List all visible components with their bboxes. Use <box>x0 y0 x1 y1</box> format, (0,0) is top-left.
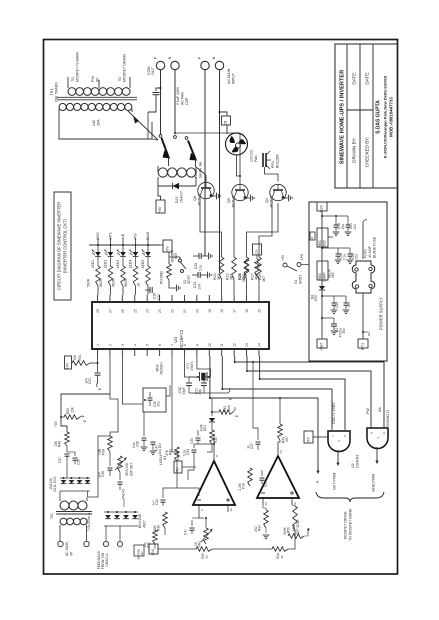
resistor R41 47K <box>175 447 180 461</box>
svg-text:OUT: OUT <box>151 66 155 75</box>
wire OSC pin9 <box>197 356 211 377</box>
svg-text:5: 5 <box>370 432 374 434</box>
+5V box gate supply <box>304 431 313 443</box>
wire TR1 to relay diagonal <box>128 111 158 140</box>
wire R27 to PIC pin <box>258 279 260 295</box>
svg-text:OUT PWM: OUT PWM <box>333 473 337 490</box>
wire relay NC to TR1 loop <box>152 139 158 140</box>
svg-text:3: 3 <box>337 440 341 442</box>
wire R20 to PIC pin <box>221 279 223 295</box>
svg-text:C47: C47 <box>250 443 254 449</box>
svg-text:LPS: LPS <box>300 253 304 260</box>
resistor R49 10K <box>65 432 70 446</box>
svg-text:2.2M: 2.2M <box>238 483 242 490</box>
diode D6 <box>132 515 138 519</box>
svg-text:MOB:-09910447733: MOB:-09910447733 <box>389 97 394 137</box>
svg-text:2.5uF 440V: 2.5uF 440V <box>176 86 180 105</box>
capacitor C42 <box>191 520 193 526</box>
svg-text:F28: F28 <box>242 483 246 489</box>
wire Q6 collector down <box>200 196 222 257</box>
svg-text:7: 7 <box>171 344 175 346</box>
wire C8 to AC neutral <box>220 112 228 116</box>
svg-text:D15: D15 <box>175 197 179 203</box>
wire AC MAIN phase down <box>204 70 206 257</box>
svg-text:PW: PW <box>134 232 138 238</box>
terminal AC MAIN IP 2 <box>84 541 89 546</box>
svg-text:+5V: +5V <box>176 467 180 474</box>
svg-text:C39: C39 <box>101 471 105 477</box>
svg-text:S1: S1 <box>294 280 298 284</box>
svg-text:19: 19 <box>208 309 212 313</box>
svg-text:R5b: R5b <box>287 527 291 533</box>
svg-text:CHAG-U: CHAG-U <box>105 553 109 567</box>
preset VR3 10K O/P SET <box>118 456 123 472</box>
svg-text:10u: 10u <box>341 224 345 230</box>
svg-text:15A: 15A <box>97 119 101 126</box>
svg-text:CN1: CN1 <box>151 549 155 556</box>
svg-text:12: 12 <box>293 502 297 506</box>
ground C24 <box>208 272 212 279</box>
svg-text:C8: C8 <box>224 121 228 126</box>
svg-text:104: 104 <box>198 284 202 290</box>
svg-text:10: 10 <box>208 343 212 347</box>
AND gate U2B <box>367 428 388 449</box>
svg-text:5: 5 <box>146 344 150 346</box>
svg-text:13: 13 <box>264 502 268 506</box>
wire Q6 base from relay coil <box>196 186 206 190</box>
svg-text:LED1: LED1 <box>91 260 95 269</box>
svg-text:10K: 10K <box>73 354 77 361</box>
LED supply bus <box>89 244 160 246</box>
arrow net A down <box>317 468 319 473</box>
resistor R22 3K2 <box>232 257 237 279</box>
svg-text:MOSFET DRAIN: MOSFET DRAIN <box>123 54 127 82</box>
relay RL1 coil <box>158 168 167 177</box>
svg-text:TO: TO <box>118 77 122 82</box>
switch S1 SPDT <box>283 263 287 267</box>
relay coil bottom rail <box>158 185 196 187</box>
wire COM OUT phase down <box>160 70 162 135</box>
svg-text:11: 11 <box>220 343 224 347</box>
ground C25 <box>209 253 213 260</box>
resistor bottom horizontal 2 <box>272 547 288 552</box>
capacitor C24 104 <box>198 272 200 278</box>
E hook feedback <box>123 495 124 499</box>
op-amp U3A signs <box>197 499 201 501</box>
svg-text:REG: REG <box>318 273 322 281</box>
transformer TR2 secondary <box>60 518 67 525</box>
gate U2B input stubs <box>371 426 384 428</box>
crystal ground rail with E <box>189 392 228 394</box>
svg-text:0.1u: 0.1u <box>343 254 347 261</box>
svg-text:FSN: FSN <box>102 448 106 455</box>
svg-text:LED5: LED5 <box>141 260 145 269</box>
svg-text:C37: C37 <box>58 457 62 463</box>
wire Q5 base from relay <box>239 133 241 185</box>
svg-text:21: 21 <box>183 309 187 313</box>
wire S2 to bus <box>168 252 170 264</box>
relay RL1 contact arms <box>162 138 169 157</box>
wire pin2 L-run <box>110 356 118 436</box>
ground R24 <box>265 528 267 533</box>
junction dots <box>234 361 236 363</box>
capacitor C39 <box>109 452 111 466</box>
gate U2B output arrow SINE PWM <box>376 447 378 460</box>
svg-text:BC547: BC547 <box>231 196 236 208</box>
svg-text:LB: LB <box>121 233 125 238</box>
svg-text:104: 104 <box>353 224 357 230</box>
wire MCLR junction <box>90 362 98 364</box>
L8 box <box>310 232 315 240</box>
svg-text:14: 14 <box>257 343 261 347</box>
brace MOSFET DRIVE <box>316 492 384 502</box>
wire R26 to PIC pin <box>246 279 248 295</box>
svg-text:N: N <box>168 56 172 59</box>
battery terminal B+ box <box>317 339 327 348</box>
terminal COM OUT neutral <box>171 61 179 69</box>
wire fuse to B- box <box>362 293 364 339</box>
svg-text:47K: 47K <box>165 449 169 456</box>
terminal feedback 1 <box>103 541 108 546</box>
gate U2A input stubs <box>332 429 345 431</box>
AND gate U2A <box>328 431 350 452</box>
svg-text:10u 16v: 10u 16v <box>158 443 162 455</box>
svg-text:8: 8 <box>215 455 219 457</box>
wire pin3 to DCDC box <box>122 356 143 404</box>
op-amp U3B body <box>257 456 299 498</box>
svg-text:LM324: LM324 <box>159 455 163 465</box>
svg-text:CAP: CAP <box>185 97 189 105</box>
wire R22 to PIC pin <box>233 279 235 295</box>
resistor 560R for LED2 <box>110 257 112 266</box>
wire reg top rail <box>322 215 348 217</box>
wire bundle run2 <box>247 356 371 427</box>
resistor R32 10K <box>210 430 215 444</box>
transformer TR1 core <box>57 97 137 100</box>
svg-text:10K: 10K <box>143 542 147 547</box>
wire fan cap branch down <box>147 112 149 139</box>
svg-text:BG3-D0E: BG3-D0E <box>138 513 142 528</box>
capacitor C43 <box>119 472 121 480</box>
diode D5 <box>123 515 129 519</box>
transformer TR1 secondary winding <box>59 103 66 110</box>
svg-text:12: 12 <box>233 343 237 347</box>
diode D15 1N4007 <box>173 183 179 190</box>
diode D19 <box>61 480 67 484</box>
svg-text:LED3: LED3 <box>116 260 120 269</box>
svg-text:POWER SUPPLY: POWER SUPPLY <box>379 297 384 330</box>
drawing title box <box>54 192 71 300</box>
wire bundle run1 <box>235 356 384 427</box>
svg-text:4: 4 <box>133 344 137 346</box>
svg-text:16: 16 <box>245 309 249 313</box>
svg-text:+12V: +12V <box>320 204 324 212</box>
svg-text:9: 9 <box>195 344 199 346</box>
capacitor C16 row2 <box>337 248 339 254</box>
ground Q5 emitter <box>246 197 250 199</box>
svg-text:104: 104 <box>85 378 89 384</box>
wire TR1 secondary loop <box>59 113 152 139</box>
wire LED3 to PIC pin <box>122 286 124 295</box>
svg-text:6: 6 <box>158 344 162 346</box>
svg-text:C35: C35 <box>190 438 194 444</box>
svg-text:+5V: +5V <box>54 420 58 427</box>
svg-text:SPDT: SPDT <box>299 274 303 284</box>
svg-text:6: 6 <box>382 432 386 434</box>
svg-text:+9V: +9V <box>158 206 162 213</box>
op-amp U3A pins <box>199 505 228 512</box>
wire Q4 collector down <box>259 198 272 257</box>
border frame <box>44 40 398 575</box>
wire U3A output feedback <box>194 444 214 448</box>
wire pin7 to op-amp supply <box>172 356 178 461</box>
resistor R29 4K7 <box>255 259 260 276</box>
capacitor C35 <box>197 430 199 436</box>
wire S1 to PS box <box>301 264 309 266</box>
svg-text:0.1u: 0.1u <box>132 442 136 448</box>
svg-text:560K: 560K <box>283 526 287 534</box>
svg-text:R24: R24 <box>258 525 262 531</box>
svg-text:10R: 10R <box>98 448 102 455</box>
wire diode rail top <box>60 477 90 479</box>
LED LED4 <box>133 252 139 256</box>
capacitor C19 with ground <box>328 236 333 238</box>
diode D4 <box>114 515 120 519</box>
svg-text:PP1: PP1 <box>271 161 275 168</box>
svg-text:TR1: TR1 <box>49 88 54 95</box>
svg-text:+5V: +5V <box>66 362 70 369</box>
transformer TR2 primary <box>60 501 69 510</box>
svg-text:560R: 560R <box>87 278 91 287</box>
svg-text:26: 26 <box>121 309 125 313</box>
wire LED2 to PIC pin <box>110 286 112 295</box>
svg-text:4N7: 4N7 <box>140 551 144 557</box>
svg-text:20: 20 <box>195 309 199 313</box>
svg-text:22: 22 <box>171 309 175 313</box>
svg-text:U2: U2 <box>351 463 355 468</box>
battery terminal B- box <box>358 339 368 348</box>
svg-text:DRAWN BY:: DRAWN BY: <box>352 137 357 162</box>
wire TR2 to diodes <box>88 436 110 497</box>
svg-text:R36: R36 <box>147 542 151 548</box>
wire oamp1 inputs <box>199 512 204 518</box>
svg-text:C25: C25 <box>194 263 198 269</box>
svg-text:12V DC: 12V DC <box>250 149 254 162</box>
svg-text:R50: R50 <box>66 408 70 414</box>
svg-text:LED4: LED4 <box>128 260 132 269</box>
transistor Q4 BC547 <box>270 184 286 200</box>
svg-text:PW: PW <box>91 76 95 82</box>
svg-text:560R: 560R <box>124 278 128 287</box>
svg-text:4.6K: 4.6K <box>227 404 231 411</box>
svg-text:8: 8 <box>183 344 187 346</box>
svg-text:2: 2 <box>108 344 112 346</box>
svg-text:7-0V,500m A: 7-0V,500m A <box>87 512 91 531</box>
svg-text:UPS: UPS <box>109 232 113 240</box>
resistor R31 10K horizontal <box>72 361 90 366</box>
capacitor C32 33p <box>189 377 198 383</box>
svg-text:CIRCUIT DIAGRAM OF SINEWAVE IN: CIRCUIT DIAGRAM OF SINEWAVE INVERTER <box>57 202 62 290</box>
C8 box fan feed <box>222 116 231 125</box>
svg-text:C36: C36 <box>77 459 81 465</box>
svg-text:D1N- D02: D1N- D02 <box>53 476 57 491</box>
resistor 560R for LED1 <box>97 257 99 266</box>
wire DCDC out <box>166 385 170 396</box>
capacitor C40 LDR <box>162 494 164 498</box>
svg-text:CD4081: CD4081 <box>356 454 360 468</box>
preset VR1 CH SET <box>204 528 209 544</box>
capacitor C38 0.1u <box>143 412 145 436</box>
svg-text:PW: PW <box>366 408 370 414</box>
svg-text:TO MOSFET BANK: TO MOSFET BANK <box>349 508 353 541</box>
terminal COM OUT phase <box>156 61 164 69</box>
resistor 560R for LED3 <box>122 257 124 266</box>
wire pin14 to C47 <box>253 362 258 436</box>
svg-text:O/P SET: O/P SET <box>130 463 134 476</box>
svg-text:1: 1 <box>96 344 100 346</box>
resistor R26 4K2 <box>244 257 249 279</box>
svg-text:2: 2 <box>343 435 347 437</box>
switch S2 SPST <box>179 259 182 262</box>
LED LED3 <box>120 252 126 256</box>
svg-text:BT(-): BT(-) <box>361 343 365 350</box>
svg-text:AC MAIN: AC MAIN <box>65 541 69 556</box>
svg-text:REG: REG <box>318 240 322 248</box>
IC U4 top pins <box>98 295 259 302</box>
svg-text:R3c: R3c <box>214 437 218 443</box>
svg-text:2K2: 2K2 <box>254 526 258 532</box>
ground symbol near B- <box>363 331 368 333</box>
transformer TR1 primary winding <box>68 88 76 96</box>
svg-text:SPST: SPST <box>187 274 191 284</box>
svg-text:24: 24 <box>146 309 150 313</box>
capacitor C29 <box>261 470 263 476</box>
svg-text:PD-DN2: PD-DN2 <box>160 271 164 284</box>
svg-text:R41: R41 <box>169 449 173 455</box>
svg-text:C41: C41 <box>155 499 159 505</box>
svg-text:13: 13 <box>245 343 249 347</box>
wire U3B output up <box>278 440 280 446</box>
+12V box aux <box>253 244 262 255</box>
diode D21 <box>77 480 83 484</box>
svg-text:9V: 9V <box>96 77 100 82</box>
transistor Q6 BC547 <box>198 182 214 198</box>
resistor R27 4K7 <box>257 257 262 279</box>
+12V box <box>317 202 327 211</box>
resistor 560R for LED4 <box>135 257 137 266</box>
svg-text:C4c: C4c <box>184 529 188 535</box>
diode D20 <box>69 480 75 484</box>
svg-text:1u: 1u <box>247 445 251 449</box>
capacitor inside DCDC <box>149 392 151 397</box>
LED LED1 <box>95 252 101 256</box>
svg-text:20M s: 20M s <box>190 361 194 370</box>
svg-text:C43: C43 <box>122 489 126 495</box>
regulator REG 7805 <box>317 228 328 247</box>
LED LED2 <box>108 252 114 256</box>
diode D22 <box>85 480 91 484</box>
resistor R45 10K <box>108 436 113 452</box>
svg-text:TO: TO <box>71 77 75 82</box>
svg-text:50/60HZ D: 50/60HZ D <box>386 410 390 427</box>
crystal X1 20MHz <box>200 372 208 381</box>
capacitor C36 <box>74 452 76 456</box>
capacitor C31 33p <box>204 377 209 383</box>
svg-text:4007: 4007 <box>314 294 318 301</box>
svg-text:1N4148: 1N4148 <box>49 478 53 490</box>
svg-text:BC547: BC547 <box>197 194 202 206</box>
resistor R36 10K <box>153 530 158 544</box>
svg-text:MAIN: MAIN <box>146 231 150 240</box>
svg-text:1N4007: 1N4007 <box>180 191 184 203</box>
svg-text:18: 18 <box>220 309 224 313</box>
svg-text:4K7: 4K7 <box>262 276 266 282</box>
wire LED1 to PIC pin <box>97 286 99 295</box>
svg-text:4: 4 <box>376 437 380 439</box>
fan 12V DC FAN body <box>226 133 248 155</box>
ground Q4 emitter <box>284 197 288 199</box>
left +5V rail <box>61 394 110 432</box>
svg-text:INV: INV <box>174 252 178 258</box>
svg-text:LED2: LED2 <box>103 260 107 269</box>
svg-text:SET 50/60: SET 50/60 <box>296 519 300 534</box>
svg-text:104: 104 <box>347 302 351 308</box>
wire relay arm leads <box>169 157 196 167</box>
fuse feed wire <box>362 222 364 259</box>
wire LED4 to PIC pin <box>135 286 137 295</box>
resistor R24 2K2 <box>264 510 269 528</box>
capacitor C47 1u <box>257 436 259 440</box>
svg-text:23: 23 <box>158 309 162 313</box>
wire Q5 collector down <box>233 198 235 240</box>
wire base rail Q4 <box>247 203 279 257</box>
wire LED column LED1 <box>97 238 99 252</box>
wire OSC pin8 <box>184 356 198 377</box>
wire relay coil to +9 box <box>158 186 161 200</box>
capacitor C42b 10u <box>152 412 154 440</box>
svg-text:240: 240 <box>92 120 96 126</box>
wire bundle run3 <box>260 356 345 429</box>
terminal AC MAIN phase <box>201 61 209 69</box>
svg-text:3K2: 3K2 <box>242 276 246 282</box>
+5V box LED bus <box>163 240 172 252</box>
wire bundle run4 <box>222 356 332 429</box>
svg-text:7805: 7805 <box>323 240 327 248</box>
svg-text:25: 25 <box>133 309 137 313</box>
wire fan to C8 box <box>226 125 228 134</box>
resistor R39 150K <box>163 512 168 528</box>
svg-text:33pF: 33pF <box>182 387 186 394</box>
svg-text:R49: R49 <box>58 441 62 447</box>
capacitor C13 row3 <box>333 296 335 303</box>
CN2 box <box>134 545 144 556</box>
transformer TR2 core <box>56 512 92 515</box>
svg-text:27: 27 <box>108 309 112 313</box>
resistor R25 10K horizontal <box>196 547 212 552</box>
svg-text:BLADE FUSE: BLADE FUSE <box>373 236 377 258</box>
svg-text:L8: L8 <box>310 237 314 241</box>
svg-text:C34: C34 <box>186 449 190 455</box>
svg-text:0.1u: 0.1u <box>183 450 187 457</box>
svg-text:FAN: FAN <box>254 155 258 162</box>
svg-text:28: 28 <box>96 309 100 313</box>
resistor R40 4K7 <box>278 424 283 440</box>
resistor F28 2.2M <box>248 468 253 486</box>
wire AC MAIN neutral down <box>219 70 221 274</box>
svg-text:C13: C13 <box>335 302 339 308</box>
svg-text:9: 9 <box>200 509 204 511</box>
svg-text:+12V: +12V <box>255 248 259 256</box>
